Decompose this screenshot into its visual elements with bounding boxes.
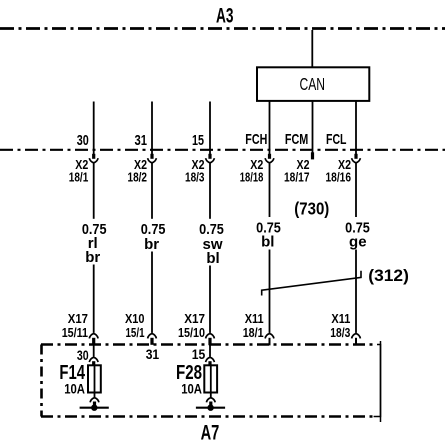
connector X2 18/1 socket <box>89 158 98 163</box>
svg-text:X17: X17 <box>184 311 205 326</box>
svg-text:15/11: 15/11 <box>62 325 88 340</box>
connector X11 18/1 pin <box>269 338 271 346</box>
connector X10 15/1 socket <box>148 334 157 339</box>
connector X2 18/18 pin <box>268 154 271 159</box>
fuse F14 holder socket <box>89 357 98 362</box>
connector X17 15/11 socket <box>89 334 98 339</box>
junction dot F28 <box>207 405 213 411</box>
svg-text:A3: A3 <box>216 5 234 28</box>
svg-text:18/1: 18/1 <box>69 170 89 185</box>
svg-text:A7: A7 <box>201 422 220 445</box>
svg-text:ge: ge <box>349 234 367 251</box>
connector X2 18/17 pin (no mate) <box>311 152 314 159</box>
svg-text:30: 30 <box>77 347 89 363</box>
wire circuit 30 (column 1 upper) <box>93 102 95 155</box>
wire circuit 15 (column 3 upper) <box>209 102 211 155</box>
fuse F14 bottom socket <box>90 398 99 403</box>
fuse F28 top pin <box>208 361 211 366</box>
fuse F28 holder socket <box>206 357 215 362</box>
svg-text:18/2: 18/2 <box>128 170 148 185</box>
svg-text:15/10: 15/10 <box>178 325 205 340</box>
svg-text:31: 31 <box>146 346 160 362</box>
wire col2 middle segment <box>151 163 153 219</box>
wire col4 lower segment <box>269 250 271 333</box>
connector X11 18/3 pin <box>355 338 357 346</box>
wire circuit 31 (column 2 upper) <box>151 102 153 155</box>
connector X2 18/3 pin <box>208 154 211 159</box>
wire col4 middle segment <box>269 163 271 217</box>
svg-text:X10: X10 <box>125 311 145 326</box>
twisted pair marker (312) diagonal <box>262 271 361 296</box>
wire col3 lower segment <box>209 266 211 333</box>
svg-text:18/16: 18/16 <box>326 170 352 185</box>
fuse F28 bottom pin <box>209 402 212 408</box>
svg-text:18/3: 18/3 <box>330 325 350 340</box>
fuse box A7 left boundary (dash-dot) <box>40 345 43 417</box>
fuse F14 bottom pin <box>93 402 96 408</box>
svg-text:CAN: CAN <box>300 74 326 94</box>
svg-text:X11: X11 <box>331 311 350 326</box>
svg-text:18/17: 18/17 <box>284 170 310 185</box>
connector X17 15/11 pin <box>92 338 95 345</box>
connector X17 15/10 socket <box>206 334 215 339</box>
wire col3 middle segment <box>209 163 211 219</box>
wire A3 to CAN controller <box>311 30 313 67</box>
svg-text:15/1: 15/1 <box>126 325 145 340</box>
fuse F14 element wire <box>94 365 96 397</box>
svg-text:FCL: FCL <box>326 131 347 148</box>
bus bar under F28 <box>196 407 225 409</box>
fuse F14 top pin <box>92 361 95 366</box>
wire from boundary to fuse F14 <box>93 345 95 357</box>
svg-text:15: 15 <box>192 346 206 362</box>
wire FCH from CAN box <box>269 101 271 154</box>
fuse box A7 bottom boundary (dash-dot) <box>41 415 374 418</box>
svg-text:bl: bl <box>261 234 274 251</box>
wire from boundary to fuse F28 <box>209 345 211 357</box>
connector X2 18/16 socket <box>352 158 361 163</box>
fuse F14 body <box>88 365 101 392</box>
wire col2 lower segment <box>151 252 153 333</box>
control module A3 boundary (dash-dot line) <box>0 27 445 30</box>
svg-text:FCH: FCH <box>245 131 267 148</box>
connector X17 15/10 pin <box>208 338 211 345</box>
fuse box A7 top boundary (dash-dot) <box>41 343 377 346</box>
fuse box A7 right bracket <box>374 345 381 417</box>
connector X2 18/2 socket <box>148 158 157 163</box>
svg-text:10A: 10A <box>64 380 85 396</box>
svg-text:31: 31 <box>135 132 148 149</box>
svg-text:br: br <box>144 236 159 253</box>
connector X2 18/18 socket <box>265 158 274 163</box>
svg-text:15: 15 <box>192 132 204 149</box>
wire col6 lower segment <box>355 250 357 333</box>
svg-text:18/1: 18/1 <box>243 325 264 340</box>
svg-text:(312): (312) <box>368 267 409 285</box>
svg-text:br: br <box>85 249 100 266</box>
fuse F28 element wire <box>210 365 212 397</box>
bus bar under F14 <box>80 407 109 409</box>
connector boundary dash-dot line (X2 row) <box>0 149 445 151</box>
connector X11 18/3 socket <box>352 334 361 339</box>
wire FCL from CAN box <box>355 101 357 154</box>
svg-text:10A: 10A <box>181 380 202 396</box>
wire col1 lower segment <box>93 265 95 333</box>
connector X2 18/16 pin <box>354 154 357 159</box>
connector X11 18/1 socket <box>265 334 274 339</box>
fuse F28 body <box>204 365 217 392</box>
wire FCM from CAN box <box>312 101 314 153</box>
svg-text:(730): (730) <box>294 199 329 219</box>
svg-text:30: 30 <box>77 132 89 149</box>
junction dot F14 <box>91 405 97 411</box>
svg-text:bl: bl <box>206 250 219 267</box>
wire col1 middle segment <box>93 163 95 219</box>
svg-text:18/18: 18/18 <box>240 170 264 185</box>
svg-text:X11: X11 <box>245 311 264 326</box>
wire col6 middle segment <box>355 163 357 217</box>
fuse F28 bottom socket <box>206 398 215 403</box>
svg-text:18/3: 18/3 <box>185 170 205 185</box>
CAN controller box U-CAN <box>257 67 369 101</box>
connector X2 18/1 pin <box>92 154 95 159</box>
svg-text:FCM: FCM <box>285 131 308 148</box>
connector X2 18/3 socket <box>206 158 215 163</box>
connector X2 18/2 pin <box>150 154 153 159</box>
svg-text:X17: X17 <box>68 311 88 326</box>
connector X10 15/1 pin <box>150 338 153 345</box>
